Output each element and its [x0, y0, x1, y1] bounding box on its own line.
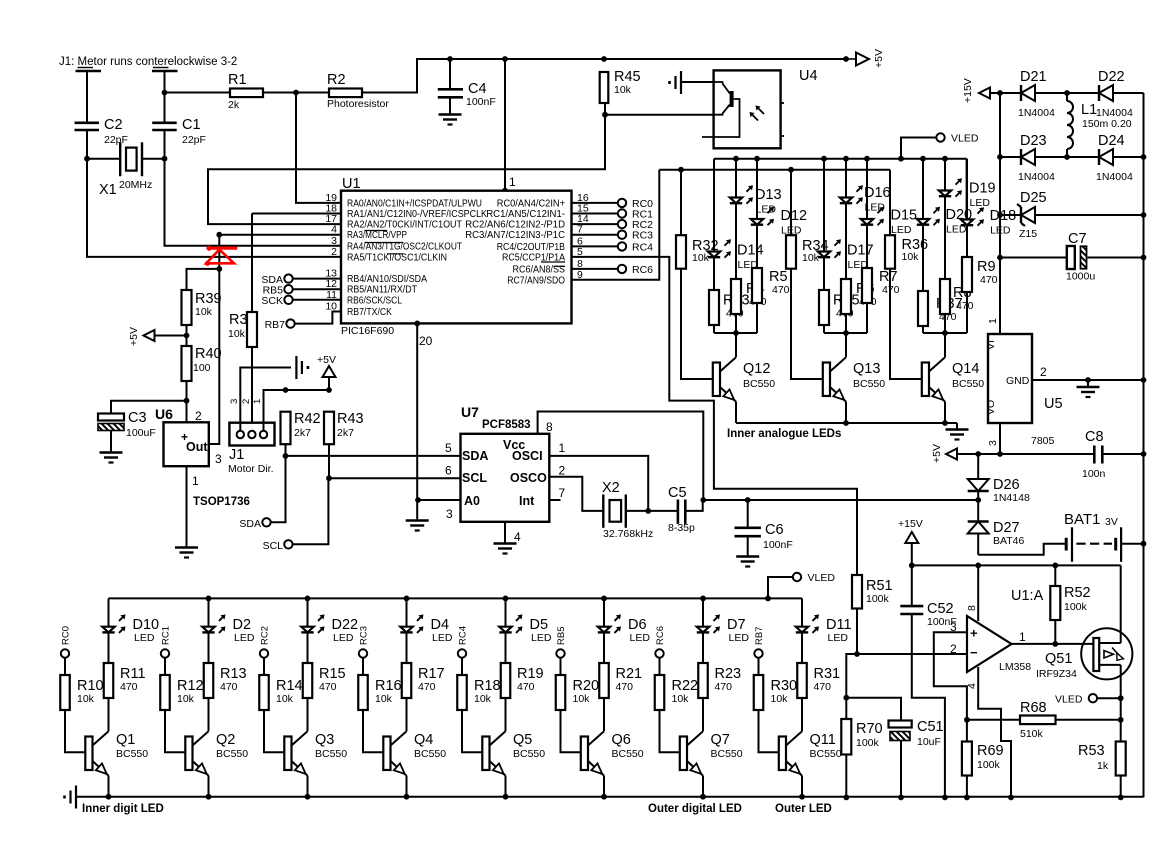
label inner digit LED [82, 803, 164, 815]
wire Q5 emitter [505, 776, 507, 797]
wire C1 node to R1 [165, 92, 231, 94]
LED D12 [751, 207, 807, 237]
wire column D18 [966, 159, 968, 220]
wire U6 out pin3 to MCLR column [209, 269, 220, 444]
wire Q51 source to +15V row [1120, 565, 1122, 643]
note J1 motor direction [59, 56, 237, 68]
wire Q3 emitter [307, 776, 309, 797]
wire Q2 emitter [208, 776, 210, 797]
wire R19 to Q5 collector [505, 698, 507, 731]
resistor R31 470 [797, 663, 840, 698]
terminal RB5 [263, 285, 293, 297]
wire noninverting input [934, 632, 970, 722]
wire column D16 [845, 159, 847, 198]
capacitor C5 trimmer [668, 485, 695, 534]
transistor Q7 BC550 [680, 731, 743, 775]
wire U1 pin20 ground column [414, 321, 420, 521]
LED D4 [400, 614, 453, 644]
wire U1 pin9 RC7 to LED base bus [571, 170, 659, 280]
ground below C6 [736, 557, 759, 567]
resistor R3 [228, 312, 257, 347]
wire emitter bus inner analogue [736, 420, 957, 426]
resistor R51 [852, 575, 893, 609]
wire D10 to R11 [108, 632, 110, 663]
wire U1 pin5 CCP1 to R51 path [571, 257, 857, 575]
wire column D2 anode [208, 598, 210, 626]
wire Int stub [549, 499, 560, 501]
wire RC4 to R18 [461, 658, 463, 675]
wire column D19 [944, 159, 946, 191]
ground of analogue emitters [946, 423, 969, 440]
wire crystal left [84, 156, 120, 162]
wire R22 to Q7 base [660, 710, 680, 752]
wire R30 to Q11 base [759, 710, 779, 752]
wire column D10 anode [108, 598, 110, 626]
diode D25 zener Z15 [1000, 190, 1144, 240]
transistor Q13 BC550 [823, 357, 885, 401]
terminal RB7 [265, 319, 295, 331]
capacitor C7 electrolytic [1000, 231, 1144, 283]
wire D5 to R19 [505, 632, 507, 663]
ground at U5 GND [1077, 380, 1100, 397]
terminal RC0 [571, 198, 653, 210]
resistor R22 10k [655, 675, 698, 710]
capacitor C6 [735, 500, 793, 556]
wire R16 to Q4 base [363, 710, 383, 752]
terminal RC2 [571, 219, 653, 231]
wire R20 to Q6 base [561, 710, 581, 752]
wire R21 to Q6 collector [603, 698, 605, 731]
wire R42 bottom to SDA row [283, 444, 289, 459]
LED D17 [818, 239, 874, 271]
IC U7 PCF8583 [445, 404, 566, 544]
resistor R19 470 [501, 663, 544, 698]
wire R32 to Q12 base [681, 269, 713, 379]
wire RB7 pin10 [295, 312, 341, 324]
wire collector rail Q13 [824, 330, 867, 336]
wire R40 to U6 pin2 node [184, 381, 190, 422]
wire R2 to +5V rail [362, 56, 849, 92]
wire column D15 [866, 159, 868, 219]
wire RC6 to R22 [659, 658, 661, 675]
resistor R21 470 [599, 663, 642, 698]
resistor R10 10k [60, 675, 103, 710]
wire opamp output [1012, 641, 1094, 647]
wire column D5 anode [505, 598, 507, 626]
wire R23 to Q7 collector [702, 698, 704, 731]
terminal VLED bottom section [768, 572, 835, 598]
wire R15 to Q3 collector [307, 698, 309, 731]
wire base bus to R32 [680, 170, 682, 236]
wire right bus [1141, 93, 1147, 797]
wire D22 to R15 [307, 632, 309, 663]
wire R12 to Q2 base [165, 710, 185, 752]
wire U7 A0 to ground column [415, 497, 460, 503]
wire RB5 pin12 [293, 288, 341, 290]
wire RC1 to R12 [164, 658, 166, 675]
terminal VLED at Q51 [1055, 694, 1121, 706]
wire Q51 drain to VLED node [1118, 665, 1124, 742]
terminal RC1 [161, 626, 172, 658]
wire Q11 emitter [801, 776, 803, 797]
wire R13 to Q2 collector [208, 698, 210, 731]
resistor R6 470 [841, 279, 877, 314]
wire OSC2 to U1 pin3 [165, 159, 342, 246]
transistor Q4 BC550 [383, 731, 446, 775]
wire SCL row to U7 [329, 477, 461, 479]
wire U4 emitter to R45 [605, 114, 714, 116]
wire D6 to R21 [603, 632, 605, 663]
transistor Q14 BC550 [922, 357, 984, 401]
wire OSCO to crystal [549, 477, 603, 511]
wire Q4 emitter [406, 776, 408, 797]
wire RB7 to R30 [758, 658, 760, 675]
label outer LED [775, 803, 832, 815]
capacitor C1 [152, 117, 206, 146]
transistor Q6 BC550 [581, 731, 644, 775]
wire J1 pin3 to chassis [240, 368, 291, 431]
LED D22 [301, 614, 358, 644]
wire column D12 [756, 159, 758, 219]
wire column D4 anode [406, 598, 408, 626]
wire D14 to R33 [713, 258, 715, 291]
IC U5 7805 regulator [985, 318, 1063, 447]
resistor R53 [1078, 742, 1126, 798]
LED D15 [861, 207, 917, 236]
resistor R11 470 [104, 663, 146, 698]
wire D4 to R17 [406, 632, 408, 663]
power +5V arrow at R39 R40 [128, 327, 187, 346]
terminal RB5 [556, 627, 567, 658]
resistor R2 photoresistor [327, 72, 389, 110]
power +5V arrow at U5 output [931, 444, 1094, 463]
capacitor C3 electrolytic [98, 410, 156, 439]
wire D27 to battery [978, 544, 1065, 555]
crystal X1 [99, 142, 152, 198]
LED D2 [202, 614, 255, 644]
wire R34 to Q13 base [791, 269, 823, 379]
wire D13 to R4 [735, 204, 737, 280]
wire U1 pin19 from R1 R2 node [296, 93, 341, 203]
ground below U6 [175, 548, 198, 558]
wire RB6 pin11 [293, 299, 341, 301]
wire ground bus bottom [76, 794, 1144, 801]
wire R4 to rail [735, 314, 737, 333]
chassis icon near J1 [296, 356, 308, 379]
power +5V arrow top right [846, 49, 885, 68]
wire Q13 emitter [845, 402, 847, 423]
wire C1 to crystal node [164, 130, 166, 159]
wire OSC1 to U1 pin2 [87, 159, 341, 257]
LED D6 [598, 614, 651, 644]
wire R3 top to pin18 line [251, 214, 253, 313]
transistor Q12 BC550 [713, 357, 775, 401]
battery BAT1 3V [1064, 511, 1144, 562]
wire +15V rail vertical [997, 90, 1003, 334]
wire R7 to rail [866, 303, 868, 333]
terminal RC4 [571, 241, 653, 253]
wire R18 to Q5 base [462, 710, 482, 752]
wire U7 pin8 Vcc [538, 412, 704, 501]
wire column D13 [735, 159, 737, 198]
terminal SDA bottom [239, 518, 270, 530]
wire R33 to rail [713, 325, 715, 333]
wire J1 pin1 to +5V rail [264, 387, 332, 430]
diode D22 1N4004 [1067, 69, 1144, 119]
terminal RB7 [754, 627, 765, 658]
crystal X2 [602, 480, 653, 540]
wire node to C3 [111, 401, 187, 414]
wire U5 GND to bus [1032, 377, 1144, 383]
chassis icon at ground bus [65, 786, 77, 809]
wire R70 C51 node [846, 698, 901, 721]
wire VLED bus (anode) [714, 156, 967, 162]
LED D14 [708, 239, 764, 271]
wire column D11 anode [801, 598, 803, 626]
resistor R12 10k [160, 675, 203, 710]
wire backup Vcc bus [703, 497, 981, 503]
wire C2 to crystal node [86, 130, 88, 159]
resistor R20 10k [556, 675, 599, 710]
wire node to R39 [187, 269, 220, 290]
wire U1 pin4 MCLR [216, 232, 341, 238]
wire SDA terminal to SDA row [271, 456, 286, 522]
resistor R36 10k [885, 235, 928, 269]
wire R6 to rail [845, 314, 847, 333]
LED D10 [102, 614, 159, 644]
resistor R52 [1050, 565, 1090, 644]
wire MCLR column [216, 235, 222, 272]
terminal SCK (RB6) [261, 295, 292, 307]
transistor Q1 BC550 [85, 731, 148, 775]
connector J1 Motor Dir [228, 399, 275, 475]
resistor R5 470 [752, 268, 790, 303]
wire U1 pin1 to +5V rail [502, 59, 508, 194]
ground below pin20 column [406, 521, 429, 531]
wire R1 to R2 [263, 90, 329, 96]
resistor R7 470 [862, 268, 900, 303]
capacitor C8 [1082, 429, 1144, 480]
resistor R9 470 [962, 257, 998, 292]
wire Q14 collector [944, 333, 946, 357]
resistor R69 [962, 720, 1004, 798]
wire Q14 emitter [944, 402, 946, 423]
resistor R37 470 [918, 291, 963, 326]
wire collector rail Q12 [714, 330, 757, 336]
wire Q7 emitter [702, 776, 704, 797]
wire RB4 pin13 [293, 278, 341, 280]
resistor R35 470 [819, 290, 860, 325]
wire base bus to R34 [790, 170, 792, 236]
motor terminal pad right [152, 70, 178, 73]
wire R17 to Q4 collector [406, 698, 408, 731]
resistor R1 [228, 72, 263, 111]
capacitor C52 [900, 565, 956, 797]
IC U4 opto sensor [702, 68, 818, 148]
terminal RC3 [571, 230, 653, 242]
label inner analogue LEDs [727, 428, 841, 440]
inductor L1 motor coil [1064, 90, 1132, 160]
wire column D17 [823, 159, 825, 252]
motor terminal pad left [76, 70, 102, 73]
wire inverting input [843, 654, 967, 701]
transistor Q2 BC550 [185, 731, 248, 775]
chassis icon near U4 [670, 71, 682, 94]
wire column D7 anode [702, 598, 704, 626]
terminal RC3 [359, 626, 370, 658]
wire R11 to Q1 collector [108, 698, 110, 731]
capacitor C51 electrolytic [889, 719, 944, 797]
ground below C3 [100, 453, 123, 463]
resistor R40 [182, 346, 222, 381]
wire D15 to R7 [866, 225, 868, 268]
wire terminal left to C2 [86, 71, 88, 123]
wire Q6 emitter [603, 776, 605, 797]
terminal SCL bottom [263, 540, 293, 552]
resistor R39 [182, 290, 222, 325]
wire C3 to ground [110, 431, 112, 453]
ground below C4 [439, 115, 462, 125]
wire R8 to rail [944, 314, 946, 333]
wire terminal right through C1 junction [162, 71, 168, 123]
terminal RC0 [61, 626, 72, 658]
capacitor C2 [75, 117, 128, 146]
wire R43 bottom to SCL row [326, 444, 332, 481]
wire U7 pin4 to ground [504, 522, 506, 543]
wire opamp V+ pin8 [977, 565, 979, 621]
wire RC2 to R14 [263, 658, 265, 675]
LED D16 [840, 185, 891, 214]
power +5V arrow above R43 [317, 354, 336, 390]
terminal RC4 [458, 626, 469, 658]
resistor R15 470 [303, 663, 346, 698]
ground below U7 [494, 544, 517, 554]
resistor R45 [600, 69, 641, 103]
wire D2 to R13 [208, 632, 210, 663]
diode D21 1N4004 [1000, 69, 1067, 119]
terminal VLED top [901, 133, 979, 159]
resistor R68 510k [967, 700, 1121, 740]
wire RB5 to R20 [560, 658, 562, 675]
wire column D20 [922, 159, 924, 219]
wire RC3 to R16 [362, 658, 364, 675]
wire column D22 anode [307, 598, 309, 626]
LED D7 [697, 614, 750, 644]
wire OSCI to crystal node [549, 456, 651, 514]
transistor Q5 BC550 [482, 731, 545, 775]
wire U1 pin17 bundle from R45 [208, 103, 608, 224]
IC U1 PIC16F690 [325, 175, 589, 348]
wire SCL terminal to SCL row [293, 478, 329, 544]
wire chassis to U4 [681, 81, 714, 83]
resistor R23 470 [698, 663, 741, 698]
LED D11 [796, 614, 852, 644]
wire R51 to inverting input [854, 609, 860, 657]
resistor R33 470 [709, 290, 750, 325]
wire base bus from RC7 [659, 167, 890, 173]
diode red (MCLR/Vpp clamp) [205, 246, 237, 266]
wire D19 to R8 [944, 197, 946, 280]
op-amp U1:A LM358 [950, 588, 1044, 689]
wire crystal right [142, 156, 167, 162]
wire R10 to Q1 base [65, 710, 85, 752]
resistor R32 10k [676, 235, 719, 269]
transistor Q11 BC550 [779, 731, 842, 775]
LED D20 [917, 207, 972, 236]
terminal SDA (RB4) [261, 274, 292, 286]
LED D19 [939, 178, 996, 209]
wire base bus to R36 [889, 170, 891, 236]
wire +15V row [909, 563, 1121, 569]
resistor R43 [324, 411, 364, 444]
wire U1 pin18 to R3 column [252, 213, 341, 215]
wire U5 VO to +5V node [997, 423, 1003, 457]
label outer digital LED [648, 803, 742, 815]
wire R37 to rail [922, 326, 924, 333]
wire R36 to Q14 base [890, 269, 922, 379]
wire D7 to R23 [702, 632, 704, 663]
resistor R16 10k [358, 675, 401, 710]
diode D26 1N4148 [968, 454, 1030, 504]
wire bus right end into D18 column [966, 159, 968, 220]
wire D16 to R6 [845, 204, 847, 280]
resistor R14 10k [259, 675, 302, 710]
power +15V arrow at opamp [898, 518, 923, 565]
terminal RC6 [571, 264, 653, 276]
terminal RC2 [260, 626, 271, 658]
resistor R17 470 [402, 663, 445, 698]
wire crystal to C5 [626, 510, 678, 512]
wire U6 pin1 to ground [186, 466, 188, 547]
wire RC0 to R10 [64, 658, 66, 675]
resistor R42 [281, 411, 321, 444]
wire R31 to Q11 collector [801, 698, 803, 731]
LED D5 [499, 614, 552, 644]
wire VLED bus bottom section [109, 596, 803, 602]
wire D20 to R37 [922, 225, 924, 291]
wire R5 to rail [756, 303, 758, 333]
wire Q12 collector [735, 333, 737, 357]
wire R9 to rail [966, 292, 968, 333]
wire Q12 emitter [735, 402, 737, 423]
resistor R18 10k [457, 675, 500, 710]
LED D13 [730, 185, 782, 215]
IC U6 TSOP1736 [155, 406, 250, 508]
wire column D14 [713, 159, 715, 252]
resistor R4 470 [731, 279, 767, 314]
pin number 8 of U7 [546, 420, 553, 434]
wire R39 to R40 +5V node [184, 325, 190, 346]
wire C5 to Vcc bus [685, 497, 706, 511]
wire column D6 anode [603, 598, 605, 626]
transistor Q3 BC550 [284, 731, 347, 775]
resistor R34 10k [786, 235, 829, 269]
wire D12 to R5 [756, 225, 758, 268]
wire D17 to R35 [823, 258, 825, 291]
resistor R8 470 [940, 279, 974, 314]
wire D18 to R9 [966, 226, 968, 258]
resistor R13 470 [204, 663, 247, 698]
diode D24 1N4004 [1067, 133, 1144, 183]
wire R35 to rail [823, 325, 825, 333]
wire collector rail Q14 [923, 330, 967, 336]
power +15V arrow rectifier [962, 78, 1000, 103]
terminal RC6 [655, 626, 666, 658]
wire R3 bottom to J1 pin2 [251, 347, 253, 430]
capacitor C4 [438, 59, 496, 114]
resistor R70 [841, 698, 882, 798]
diode D23 1N4004 [1000, 133, 1067, 183]
